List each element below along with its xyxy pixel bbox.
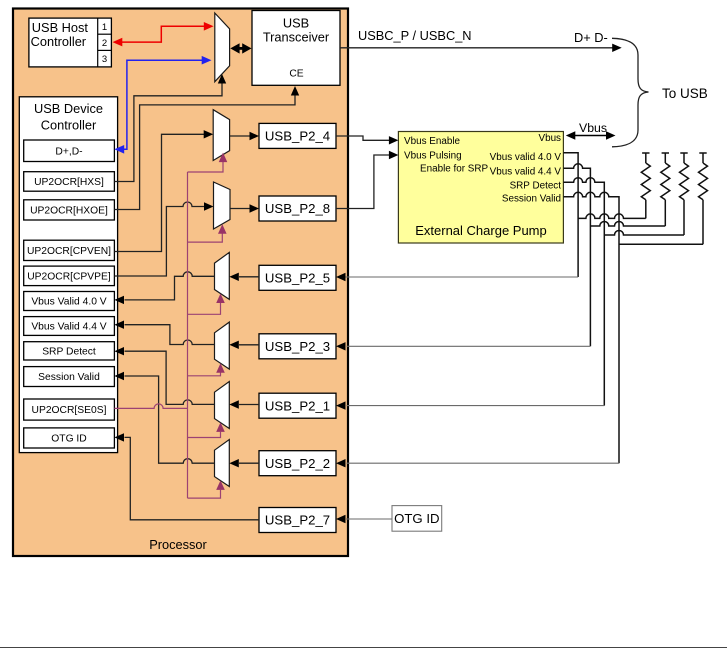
- register OTG ID: [24, 428, 115, 448]
- register UP2OCR[HXS]: [24, 172, 115, 192]
- svg-text:UP2OCR[HXOE]: UP2OCR[HXOE]: [30, 206, 108, 217]
- svg-text:Vbus Pulsing: Vbus Pulsing: [404, 151, 462, 162]
- pin box USB_P2_4: [259, 123, 336, 148]
- brace To USB: [612, 38, 649, 147]
- svg-text:Vbus valid 4.0 V: Vbus valid 4.0 V: [490, 152, 562, 163]
- red host D+/D- wire: [122, 26, 205, 42]
- select stem mux U3: [188, 162, 224, 173]
- svg-text:USB_P2_1: USB_P2_1: [265, 398, 330, 413]
- USB Transceiver U1: [252, 11, 340, 86]
- wire USB_P2_2 to mux U8 input: [239, 462, 259, 464]
- register Session Valid: [24, 367, 115, 387]
- svg-text:Transceiver: Transceiver: [263, 30, 330, 45]
- svg-text:UP2OCR[CPVPE]: UP2OCR[CPVPE]: [27, 272, 111, 283]
- USB Device Controller: [19, 97, 117, 453]
- svg-text:To USB: To USB: [662, 86, 708, 101]
- svg-text:USB_P2_8: USB_P2_8: [265, 201, 330, 216]
- svg-text:Vbus Valid 4.4 V: Vbus Valid 4.4 V: [31, 322, 106, 333]
- wire R1 to net 4.0V: [578, 214, 646, 219]
- register UP2OCR[HXOE]: [24, 200, 115, 220]
- wire UP2OCR[HXOE] to transceiver CE: [114, 96, 295, 210]
- resistor R1: [641, 153, 650, 218]
- wire transceiver to USB connector (USBC_P / USBC_N): [340, 47, 613, 49]
- svg-text:OTG ID: OTG ID: [394, 511, 439, 526]
- wire UP2OCR[CPVPE] to mux U4 input: [114, 202, 204, 276]
- double arrow mux U2 to transceiver: [235, 47, 247, 50]
- svg-text:Enable for SRP: Enable for SRP: [420, 164, 488, 175]
- wire R2 to net 4.4V: [590, 222, 665, 227]
- wire USB_P2_3 to mux U6 input: [239, 344, 259, 346]
- wire R3 to net SRP: [604, 231, 684, 236]
- mux U7 (USB_P2_1): [215, 382, 230, 429]
- register SRP Detect: [24, 342, 115, 360]
- svg-text:2: 2: [102, 38, 107, 49]
- svg-text:3: 3: [102, 54, 107, 65]
- svg-text:USBC_P / USBC_N: USBC_P / USBC_N: [358, 28, 472, 43]
- wire USB_P2_7 to OTG ID register: [125, 437, 260, 519]
- svg-text:SRP Detect: SRP Detect: [510, 181, 562, 192]
- mux U8 (USB_P2_2): [215, 440, 230, 487]
- Vbus double arrow: [570, 135, 611, 137]
- wire pump Vbus valid 4.0 V to USB_P2_5: [563, 153, 578, 277]
- svg-text:USB Host: USB Host: [32, 20, 89, 35]
- svg-text:D+,D-: D+,D-: [55, 146, 82, 157]
- svg-text:USB_P2_7: USB_P2_7: [265, 513, 330, 528]
- svg-text:Vbus valid 4.4 V: Vbus valid 4.4 V: [490, 167, 562, 178]
- pin box USB_P2_3: [259, 334, 336, 359]
- pin box USB_P2_1: [259, 393, 336, 418]
- svg-text:1: 1: [102, 22, 107, 33]
- mux U5 (USB_P2_5): [215, 252, 230, 299]
- register Vbus Valid 4.0 V: [24, 292, 115, 311]
- processor block: [13, 9, 348, 557]
- svg-text:Vbus Valid 4.0 V: Vbus Valid 4.0 V: [31, 297, 106, 308]
- wire mux U5 to Vbus Valid 4.0 V: [125, 272, 215, 300]
- wire pump Session Valid to USB_P2_2: [563, 192, 619, 463]
- mux U2 (transceiver select): [215, 13, 230, 82]
- register D+,D-: [24, 140, 115, 162]
- register UP2OCR[SE0S]: [24, 399, 115, 420]
- pin box USB_P2_5: [259, 265, 336, 290]
- select stem mux U5: [188, 303, 221, 315]
- wire mux U4 to USB_P2_8: [230, 208, 250, 210]
- select stem mux U8: [188, 490, 221, 498]
- wire pump Vbus valid 4.4 V to USB_P2_3: [563, 164, 590, 346]
- svg-text:Vbus: Vbus: [538, 133, 561, 144]
- pin box USB_P2_7: [259, 508, 336, 533]
- svg-text:Controller: Controller: [31, 34, 87, 49]
- wire OTG ID box to USB_P2_7: [346, 518, 392, 520]
- svg-text:Session Valid: Session Valid: [502, 194, 561, 205]
- OTG ID input box: [392, 506, 442, 532]
- wire USB_P2_5 to mux U5 input: [239, 276, 259, 278]
- wire mux U8 to Session Valid: [125, 376, 215, 463]
- register UP2OCR[CPVEN]: [24, 240, 115, 260]
- svg-text:USB Device: USB Device: [34, 101, 103, 116]
- USB Host Controller: [29, 18, 112, 67]
- wire UP2OCR[CPVEN] to mux U3 input: [114, 134, 204, 251]
- select stem mux U4: [188, 234, 223, 243]
- svg-text:D+ D-: D+ D-: [574, 30, 608, 45]
- mux U6 (USB_P2_3): [215, 322, 230, 369]
- wire UP2OCR[HXS] to mux U2 select: [114, 84, 222, 182]
- wire USB_P2_8 to pump Vbus Pulsing: [336, 155, 390, 209]
- bottom rule: [0, 647, 727, 649]
- wire mux U3 to USB_P2_4: [230, 135, 250, 137]
- svg-text:SRP Detect: SRP Detect: [42, 347, 96, 358]
- wire mux U7 to SRP Detect: [125, 351, 215, 404]
- svg-text:USB_P2_3: USB_P2_3: [265, 339, 330, 354]
- resistor R4: [699, 153, 708, 244]
- svg-text:Controller: Controller: [41, 118, 97, 133]
- wire R4 to net Session: [619, 243, 703, 245]
- wire mux U6 to Vbus Valid 4.4 V: [125, 325, 215, 345]
- svg-text:USB_P2_5: USB_P2_5: [265, 270, 330, 285]
- resistor R3: [680, 153, 689, 235]
- svg-text:USB_P2_2: USB_P2_2: [265, 456, 330, 471]
- svg-text:USB_P2_4: USB_P2_4: [265, 129, 330, 144]
- svg-text:OTG ID: OTG ID: [51, 434, 86, 445]
- resistor R2: [661, 153, 670, 226]
- blue device D+,D- wire: [124, 60, 202, 149]
- mux U3 (USB_P2_4): [213, 110, 229, 161]
- register UP2OCR[CPVPE]: [24, 266, 115, 286]
- svg-text:UP2OCR[CPVEN]: UP2OCR[CPVEN]: [27, 246, 111, 257]
- svg-text:Session Valid: Session Valid: [38, 372, 100, 383]
- wire USB_P2_1 to mux U7 input: [239, 404, 259, 406]
- wire pump SRP Detect to USB_P2_1: [563, 178, 604, 406]
- External Charge Pump: [398, 132, 563, 244]
- register Vbus Valid 4.4 V: [24, 317, 115, 336]
- svg-text:UP2OCR[SE0S]: UP2OCR[SE0S]: [32, 405, 107, 416]
- select stem mux U6: [188, 373, 221, 376]
- svg-text:USB: USB: [283, 16, 309, 31]
- svg-text:UP2OCR[HXS]: UP2OCR[HXS]: [34, 177, 104, 188]
- svg-text:Processor: Processor: [149, 537, 207, 552]
- svg-text:Vbus Enable: Vbus Enable: [404, 136, 461, 147]
- wire USB_P2_4 to pump Vbus Enable: [336, 136, 390, 140]
- pin box USB_P2_8: [259, 196, 336, 221]
- svg-text:CE: CE: [289, 69, 303, 80]
- svg-text:Vbus: Vbus: [579, 121, 607, 135]
- pin box USB_P2_2: [259, 451, 336, 476]
- select stem mux U7: [188, 432, 221, 438]
- svg-text:External Charge Pump: External Charge Pump: [415, 223, 547, 238]
- mux U4 (USB_P2_8): [214, 182, 231, 229]
- maroon select bus from UP2OCR[SE0S]: [114, 404, 187, 409]
